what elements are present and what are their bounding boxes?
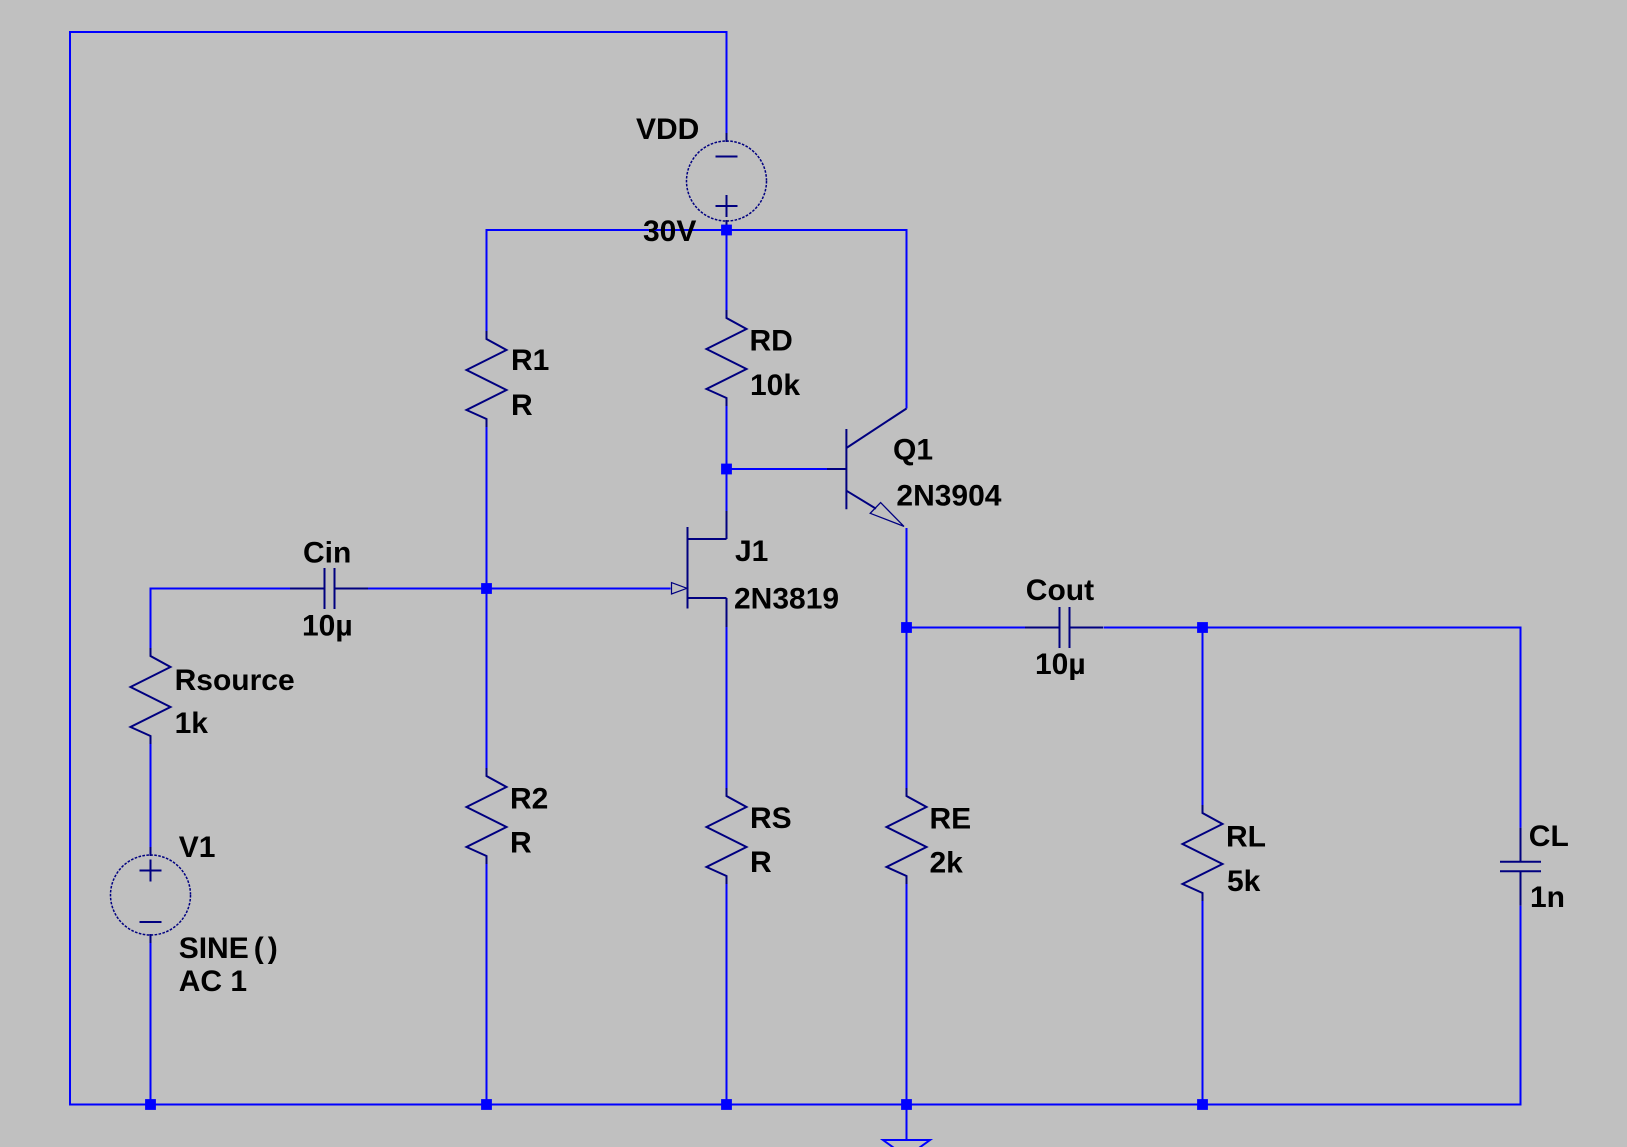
wire J1 source to RS	[726, 627, 728, 788]
svg-text:RD: RD	[750, 325, 793, 358]
wire RS to bottom rail	[726, 884, 728, 1106]
resistor RL	[1183, 805, 1223, 901]
resistor R1	[467, 331, 507, 427]
svg-text:AC 1: AC 1	[179, 965, 247, 998]
node RS bottom rail node	[721, 1099, 732, 1110]
wire drain node to J1 drain	[726, 469, 728, 511]
node output node	[901, 622, 912, 633]
wire gate to Rsource	[150, 588, 152, 649]
wire right rail upper	[1520, 627, 1522, 828]
svg-text:5k: 5k	[1227, 865, 1261, 898]
svg-text:SINE(): SINE()	[179, 932, 278, 965]
wire RE to bottom rail	[906, 884, 908, 1106]
wire Rsource to V1	[150, 744, 152, 847]
resistor RE	[887, 788, 927, 884]
node RL top node	[1197, 622, 1208, 633]
wire Q1 collector feed	[906, 229, 908, 409]
transistor Q1	[827, 409, 907, 527]
node ground rail node	[901, 1099, 912, 1110]
svg-text:10k: 10k	[750, 369, 800, 402]
wire gate rail left of Cin	[151, 588, 291, 590]
wire top rail	[69, 31, 727, 33]
wire R1 top feed	[486, 229, 488, 331]
svg-text:2N3904: 2N3904	[896, 480, 1001, 513]
wire Q1 emitter to output node	[906, 528, 908, 628]
JFET J1	[672, 511, 727, 627]
wire output rail left of Cout	[907, 627, 1026, 629]
svg-text:R: R	[511, 389, 533, 422]
wire output rail right of Cout	[1104, 627, 1522, 629]
svg-text:VDD: VDD	[636, 113, 699, 146]
svg-text:RS: RS	[750, 802, 792, 835]
svg-text:R2: R2	[510, 783, 548, 816]
svg-text:1n: 1n	[1530, 881, 1565, 914]
svg-text:10µ: 10µ	[302, 609, 353, 642]
wire R2 to bottom rail	[486, 864, 488, 1106]
voltage source VDD	[687, 133, 767, 229]
node 30V node	[721, 225, 732, 236]
svg-text:RE: RE	[930, 803, 972, 836]
wire RD to drain node	[726, 406, 728, 469]
svg-text:Cin: Cin	[303, 537, 351, 570]
node V1 bottom rail node	[145, 1099, 156, 1110]
resistor RD	[707, 310, 747, 406]
wire VDD node to RD	[726, 230, 728, 310]
wire gate node to R2	[486, 589, 488, 769]
wire RL top feed	[1202, 628, 1204, 806]
node gate node	[481, 583, 492, 594]
svg-text:Cout: Cout	[1026, 574, 1094, 607]
wire bottom rail	[69, 1104, 1522, 1106]
svg-text:10µ: 10µ	[1035, 648, 1086, 681]
wire V1 to bottom rail	[150, 943, 152, 1106]
node RL bottom rail node	[1197, 1099, 1208, 1110]
wire VDD top feed	[726, 31, 728, 133]
capacitor CL	[1500, 828, 1541, 906]
svg-text:2k: 2k	[930, 847, 964, 880]
svg-text:1k: 1k	[175, 707, 209, 740]
resistor Rsource	[131, 648, 171, 744]
wire right rail lower	[1520, 906, 1522, 1106]
wire output node to RE	[906, 628, 908, 789]
svg-text:J1: J1	[735, 535, 768, 568]
svg-text:Q1: Q1	[893, 434, 933, 467]
svg-text:CL: CL	[1529, 820, 1569, 853]
svg-text:RL: RL	[1226, 821, 1266, 854]
wire RL to bottom rail	[1202, 901, 1204, 1106]
svg-text:Rsource: Rsource	[175, 664, 295, 697]
wire left rail	[69, 31, 71, 1105]
wire R1 to gate node	[486, 427, 488, 589]
svg-text:R1: R1	[511, 344, 549, 377]
svg-text:V1: V1	[179, 831, 216, 864]
capacitor Cout	[1025, 607, 1103, 648]
wire drain node to Q1 base	[727, 468, 828, 470]
node drain-base node	[721, 464, 732, 475]
wire gate rail right of Cin	[368, 588, 671, 590]
wire ground stub	[906, 1105, 908, 1140]
capacitor Cin	[290, 568, 368, 609]
voltage source V1	[111, 847, 191, 943]
resistor RS	[707, 788, 747, 884]
wire 30V rail	[487, 229, 907, 231]
svg-text:R: R	[750, 846, 772, 879]
svg-text:R: R	[510, 827, 532, 860]
node R2 bottom rail node	[481, 1099, 492, 1110]
svg-text:30V: 30V	[643, 215, 696, 248]
ground	[883, 1140, 930, 1147]
svg-text:2N3819: 2N3819	[734, 583, 839, 616]
resistor R2	[467, 768, 507, 864]
